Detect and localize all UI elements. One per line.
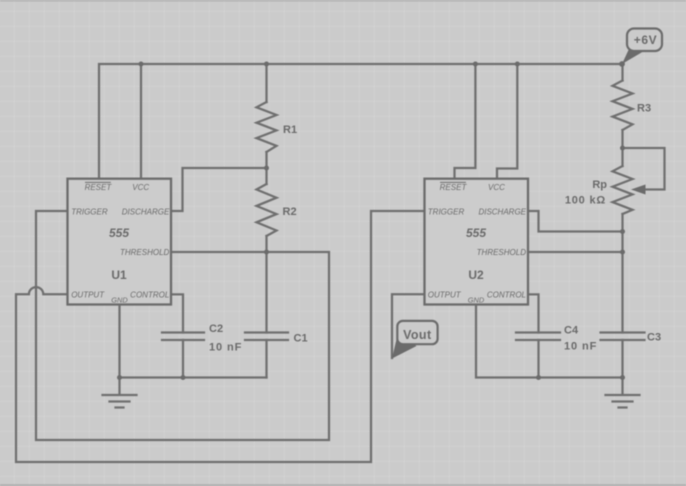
- svg-text:R1: R1: [283, 124, 297, 136]
- wire U1 gnd pin: [118, 305, 120, 378]
- wire U2 reset pin jog: [455, 64, 476, 179]
- wire C1 top from threshold node: [265, 252, 267, 333]
- svg-text:DISCHARGE: DISCHARGE: [122, 207, 170, 216]
- wire C1 bottom: [265, 340, 267, 378]
- wire R3 bottom to node: [621, 130, 623, 148]
- svg-text:C1: C1: [294, 332, 308, 344]
- wire C3 bottom: [621, 340, 623, 378]
- svg-text:C3: C3: [647, 332, 661, 344]
- resistor R3: [613, 81, 633, 131]
- wire Rp bottom stub: [621, 214, 623, 232]
- svg-text:VCC: VCC: [132, 183, 149, 192]
- wire U1 threshold net: [36, 211, 329, 440]
- wire U2 gnd pin: [476, 305, 623, 378]
- IC U1 555 timer body: [68, 179, 172, 305]
- capacitor C2: [162, 333, 204, 341]
- ground U2: [606, 378, 640, 408]
- svg-text:TRIGGER: TRIGGER: [428, 207, 465, 216]
- wire C4 bottom: [537, 340, 539, 378]
- wire U2 vcc pin jog: [497, 64, 517, 179]
- svg-text:OUTPUT: OUTPUT: [428, 290, 462, 299]
- svg-text:10 nF: 10 nF: [564, 341, 597, 353]
- wire U2 threshold net: [528, 251, 623, 253]
- svg-text:U1: U1: [111, 268, 127, 282]
- resistor R1: [257, 102, 277, 152]
- svg-text:THRESHOLD: THRESHOLD: [477, 248, 527, 257]
- wire U1 output with hop: [16, 211, 425, 462]
- svg-text:R2: R2: [283, 206, 297, 218]
- wire R1 top feed: [265, 64, 267, 102]
- svg-text:GND: GND: [468, 296, 485, 305]
- svg-text:R3: R3: [637, 103, 651, 115]
- svg-text:10 nF: 10 nF: [209, 342, 242, 354]
- netflag Vout: [392, 321, 438, 359]
- wire R1/R2 node to U1 discharge: [171, 168, 267, 211]
- wire R1 bottom to node: [265, 152, 267, 168]
- svg-text:THRESHOLD: THRESHOLD: [120, 248, 170, 257]
- wire U2 discharge to Rp bottom: [528, 211, 623, 232]
- netflag +6V: [622, 29, 662, 65]
- svg-text:+6V: +6V: [634, 33, 658, 47]
- svg-text:DISCHARGE: DISCHARGE: [478, 207, 526, 216]
- svg-text:VCC: VCC: [488, 183, 505, 192]
- svg-text:C4: C4: [564, 324, 579, 336]
- svg-text:Rp: Rp: [592, 179, 607, 191]
- wire C2 bottom: [182, 340, 184, 378]
- svg-text:TRIGGER: TRIGGER: [71, 207, 108, 216]
- wire Rp bottom to C3: [621, 232, 623, 333]
- svg-text:555: 555: [466, 226, 486, 240]
- wire Rp top stub: [621, 148, 623, 166]
- wire U2 output to Vout: [392, 294, 425, 358]
- resistor R2: [257, 184, 277, 236]
- wire U1 VCC pin: [140, 64, 142, 179]
- svg-text:GND: GND: [111, 296, 128, 305]
- svg-text:U2: U2: [468, 268, 484, 282]
- wire R3 top feed: [621, 64, 623, 81]
- svg-text:555: 555: [109, 226, 129, 240]
- svg-text:CONTROL: CONTROL: [487, 291, 526, 300]
- potentiometer Rp: [613, 166, 633, 214]
- svg-text:RESET: RESET: [440, 183, 468, 192]
- wire U1 ground rail: [120, 376, 267, 378]
- wiper arrow Rp: [631, 185, 646, 195]
- IC U2 555 timer body: [425, 179, 529, 305]
- svg-text:RESET: RESET: [85, 183, 113, 192]
- capacitor C1: [245, 333, 288, 341]
- wire U2 control to C4: [528, 294, 539, 332]
- svg-text:100 kΩ: 100 kΩ: [565, 195, 606, 207]
- wire R2 top stub: [265, 168, 267, 184]
- wire R2 bottom stub: [265, 236, 267, 252]
- svg-text:OUTPUT: OUTPUT: [71, 290, 105, 299]
- svg-text:Vout: Vout: [403, 328, 432, 342]
- svg-text:C2: C2: [209, 323, 223, 335]
- svg-text:CONTROL: CONTROL: [130, 291, 169, 300]
- ground U1: [103, 378, 137, 408]
- capacitor C4: [516, 333, 560, 341]
- wire U1 control to C2: [171, 294, 183, 332]
- wire Rp wiper loop: [623, 148, 665, 190]
- capacitor C3: [601, 333, 645, 341]
- wire top power rail: [99, 64, 622, 179]
